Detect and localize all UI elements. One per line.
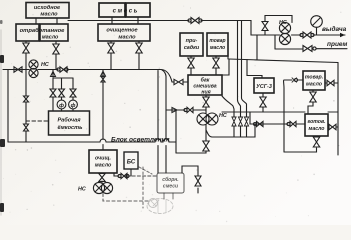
small valve left of товар справа — [292, 78, 298, 82]
wire: смесь stubs to line and to очищенное масло — [112, 17, 138, 24]
valve pair on выдача — [300, 32, 314, 38]
box: очищ. масло — [89, 150, 117, 173]
valve on bypass — [262, 22, 268, 31]
union on left drop (lower) — [24, 124, 29, 142]
svg-text:товар.: товар. — [305, 75, 323, 81]
valve under товар. масло (верх) — [213, 56, 219, 75]
svg-text:бак: бак — [201, 77, 210, 84]
wire: dash-dot to сборник — [127, 175, 157, 177]
wire: stub исходное→отработанное (left) — [35, 18, 37, 24]
arrowhead at x103 — [101, 71, 106, 76]
box: товар. масло (справа) — [303, 71, 325, 90]
arrowhead on y110 — [172, 108, 177, 113]
valve on x53 drop — [50, 89, 56, 97]
bundle line a — [222, 96, 234, 137]
wire: y176 line with valve — [114, 173, 119, 176]
wire: блок осветления line y142 with hops — [8, 110, 176, 153]
valve under pump — [203, 141, 209, 151]
arrowhead at x53 — [51, 72, 56, 77]
left edge scan blobs — [0, 20, 5, 212]
valve under готов масло — [313, 137, 319, 147]
svg-text:масло: масло — [42, 35, 59, 41]
left edge scan streak — [0, 30, 2, 215]
wire: vertical x166 — [165, 76, 167, 173]
wire: товар box right edge drop — [227, 56, 229, 59]
svg-text:масло: масло — [95, 163, 112, 169]
wire: vertical x257 (выдача→rail) — [256, 35, 258, 60]
wire: left rail x8 — [7, 70, 9, 143]
bundle line b — [238, 21, 241, 138]
wire: Γ drain right of сборник — [182, 166, 198, 193]
bundle valve a — [232, 117, 236, 126]
valve under очищенное масло (left) — [108, 41, 114, 70]
wire: branch x53 with arrow — [53, 70, 73, 112]
pump НС (нижний) — [78, 182, 113, 193]
wire: vertical x103 to очищ.масло — [102, 70, 104, 151]
drop to filter 2 — [72, 78, 74, 111]
box: присадки — [180, 33, 203, 56]
wire: dashed branch to рабочая ёмкость — [26, 120, 48, 122]
drum sketch (faint) — [147, 199, 173, 214]
valve on y69.5 right of pump — [57, 67, 68, 72]
hop over x103 — [100, 139, 106, 142]
wire: прием line — [275, 48, 347, 50]
svg-text:масло: масло — [309, 126, 325, 132]
wire: товар справа left feed curve — [284, 80, 303, 152]
wire: выдача line after pump — [292, 34, 346, 36]
svg-text:товар: товар — [209, 38, 225, 44]
svg-text:садки: садки — [184, 45, 200, 51]
wire: bundle line y137 — [206, 124, 255, 137]
valve on прием — [303, 46, 316, 52]
svg-text:масло: масло — [306, 82, 322, 88]
box: готов. масло — [305, 114, 328, 136]
bundle valve c — [244, 117, 248, 126]
pump НС (средний) — [197, 113, 227, 125]
valve above filter 1 — [59, 89, 65, 97]
wire: vertical x229 (rail→бак) — [222, 59, 229, 75]
svg-text:ф: ф — [59, 102, 64, 109]
wire: y110 line with arrow from x166 — [166, 109, 206, 111]
valve on y176 — [118, 173, 129, 178]
union on left drop (upper) — [24, 96, 29, 124]
wire: pump down chain — [176, 125, 206, 153]
svg-text:БС: БС — [127, 160, 136, 166]
svg-text:масло: масло — [118, 35, 136, 41]
svg-text:с м е с ь: с м е с ь — [113, 9, 138, 15]
valve left of готов масло — [287, 121, 296, 126]
wire: pump bottom dashed drain — [103, 194, 148, 202]
svg-text:готов.: готов. — [307, 119, 325, 125]
dashed diagonal БС→сборник — [139, 167, 152, 174]
box: отработанное масло (right cell) — [20, 24, 68, 41]
svg-text:НС: НС — [78, 187, 86, 193]
pump НС (левый) — [29, 60, 49, 78]
wire: vertical x275 (line→прием) — [274, 35, 276, 49]
valve on top line — [188, 18, 202, 24]
svg-text:НС: НС — [41, 62, 49, 68]
svg-text:выдача: выдача — [322, 25, 347, 33]
box: БС — [124, 152, 138, 169]
wire: сборник bottom stubs — [164, 193, 173, 199]
gauge (манометр) — [311, 16, 323, 35]
box: сборник смеси — [157, 173, 184, 193]
valve above filter 2 — [70, 89, 76, 97]
svg-text:НС: НС — [219, 113, 227, 119]
valve under отработанное (right) — [53, 41, 59, 70]
valve left of бак — [174, 79, 188, 84]
svg-text:Рабочая: Рабочая — [57, 117, 81, 124]
drop to filter 1 — [61, 78, 63, 111]
svg-text:ёмкость: ёмкость — [58, 125, 83, 131]
filter 1 — [57, 100, 66, 109]
box: рабочая ёмкость — [49, 111, 90, 135]
dashed vertical x143 — [142, 167, 144, 208]
filter 2 — [69, 100, 78, 109]
box: отработанное масло (left cell) — [16, 24, 39, 41]
hop over x158/x166 — [155, 139, 169, 142]
svg-text:исходное: исходное — [34, 5, 60, 11]
box: смесь (right cell) — [113, 3, 150, 17]
box: товар. масло (верх) — [207, 33, 228, 56]
box: смесь (left cell) — [99, 3, 125, 17]
valve under очищ. масло — [99, 173, 105, 183]
valve under УСГ-3 — [260, 93, 266, 112]
box: УСГ-3 — [254, 78, 274, 93]
wire: готов масло bottom loop — [284, 136, 317, 152]
bundle valve b — [238, 117, 242, 126]
wire: y112 long line — [222, 111, 338, 113]
svg-text:очищ.: очищ. — [95, 156, 112, 162]
svg-text:сборн.: сборн. — [162, 176, 178, 183]
svg-text:при-: при- — [186, 38, 198, 44]
svg-text:очищенное: очищенное — [106, 28, 137, 34]
svg-text:смеси: смеси — [163, 184, 178, 190]
wire: vertical x158 — [157, 71, 159, 174]
wire: rail y60 — [229, 59, 338, 63]
valve on drain — [195, 176, 201, 186]
valve right of товар справа — [325, 80, 338, 85]
wire: bypass loop over pump — [265, 16, 292, 36]
wire: branch from x166 top — [162, 70, 166, 76]
valve under товар справа + elbow — [308, 90, 316, 114]
wire: stub исходное→отработанное (right) — [56, 18, 58, 24]
svg-text:прием: прием — [327, 41, 348, 48]
valve under присадки — [188, 56, 194, 75]
wire: БС bottom stub — [130, 169, 132, 176]
svg-text:масло: масло — [40, 12, 58, 18]
wire: S-curve into бак feed — [161, 70, 174, 83]
svg-text:УСГ-3: УСГ-3 — [256, 84, 272, 90]
valve under очищенное масло (right) — [136, 41, 142, 70]
bundle line c — [242, 21, 247, 138]
wire: УСГ-3 feed bracket — [247, 60, 262, 78]
wire: main line y69.5 (left) — [3, 69, 161, 71]
svg-text:масло: масло — [210, 45, 225, 51]
box: очищенное масло — [98, 24, 150, 41]
valve on y124 after bundle corner — [254, 121, 264, 126]
valve on y69.5 left of pump — [14, 67, 22, 72]
svg-text:ф: ф — [71, 102, 76, 109]
svg-text:отработанное: отработанное — [20, 27, 66, 34]
valve on y110 — [184, 107, 193, 112]
wire: rail right vertical x338 — [337, 63, 339, 156]
svg-text:НС: НС — [279, 20, 287, 26]
union on x103 — [101, 77, 106, 83]
выдача arrowhead — [340, 33, 345, 37]
wire: main top line — [68, 21, 280, 36]
valve under отработанное (left) — [23, 41, 29, 96]
valve right of готов масло — [328, 124, 338, 129]
box: исходное масло — [26, 3, 69, 19]
box: бак смешивания — [188, 75, 222, 96]
pump НС (верх справа) — [279, 20, 291, 45]
valve under бак — [203, 95, 209, 113]
wire: y124 feed to готов масло — [250, 112, 305, 124]
